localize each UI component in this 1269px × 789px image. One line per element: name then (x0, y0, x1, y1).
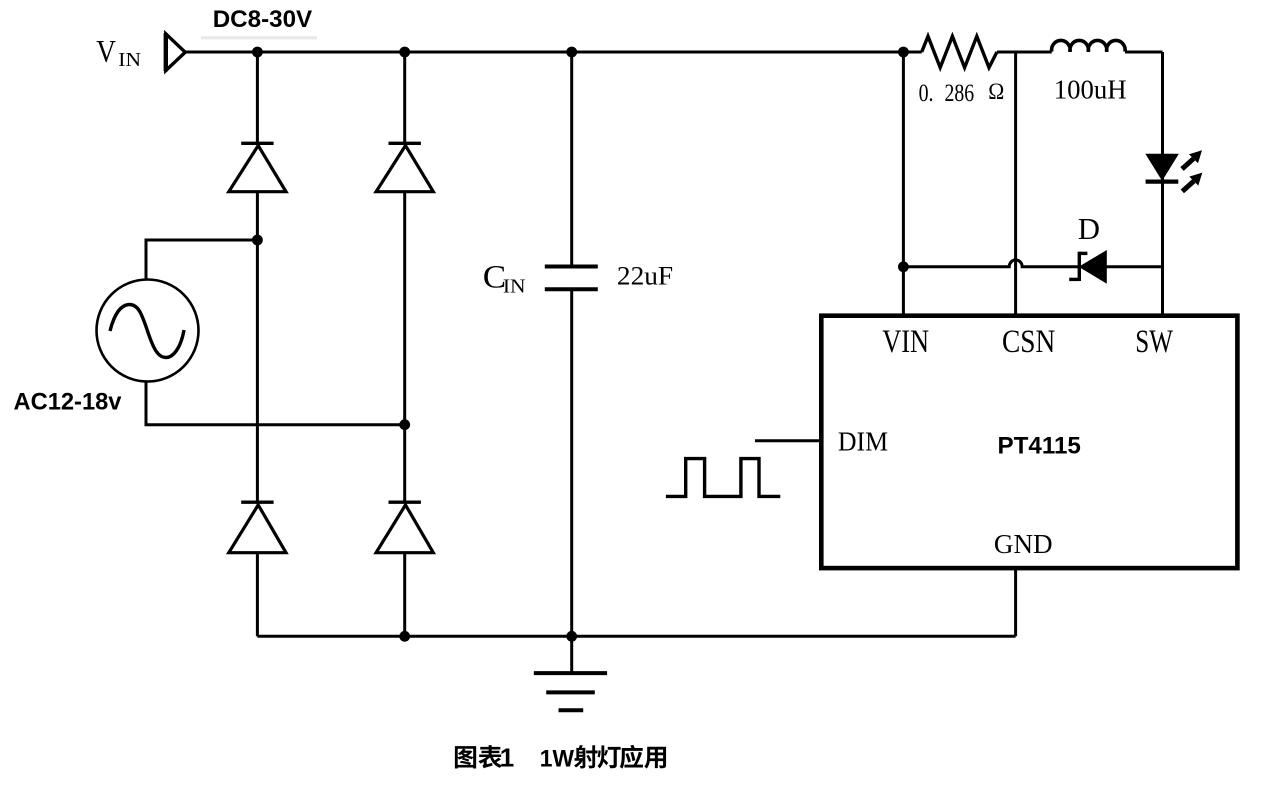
op-amp U1 PT4115 (IC body rectangle) (821, 316, 1237, 568)
wire (SW column: corner down through LED D5 to SW pin) (1161, 52, 1164, 316)
node dot (rail / bridge col 2) (399, 47, 410, 58)
wire (AC source bottom terminal to bridge node B) (146, 382, 405, 425)
port VIN input terminal (triangle) (166, 34, 185, 71)
LED D5 cathode bar (1146, 180, 1179, 184)
node dot (rail / VIN column) (898, 47, 909, 58)
AC source V1 (circle) (97, 280, 199, 382)
svg-text:D: D (1078, 212, 1100, 246)
node GND-rail (bottom ground rail) / wire (257, 635, 1015, 638)
svg-text:AC12-18v: AC12-18v (14, 389, 123, 415)
wire (bridge column 2 middle) (403, 192, 406, 503)
svg-text:DIM: DIM (838, 426, 888, 457)
decor faint smear (compression artifact under DC8-30V) (201, 36, 317, 39)
LED D5 light arrow 2 (1182, 181, 1194, 191)
wire (diode D anode to SW column) (1106, 265, 1162, 268)
node dot (rail / capacitor) (566, 47, 577, 58)
wire (capacitor CIN to bottom rail) (570, 290, 573, 637)
resistor R1 0.286ohm (zigzag) (922, 36, 997, 67)
svg-text:PT4115: PT4115 (998, 432, 1081, 459)
wire (CSN pin column) (1014, 52, 1017, 316)
diode D1 (bridge upper-left, cathode bar + triangle) (241, 142, 273, 145)
wire (bridge column 2 lower) (403, 553, 406, 637)
diode D cathode bar (Schottky) (1078, 252, 1081, 281)
node dot (ground rail / capacitor) (566, 631, 577, 642)
PWM dimming waveform (square wave) (666, 459, 780, 497)
wire (AC source top terminal to bridge node A) (146, 240, 257, 280)
node dot (rail / bridge col 1) (252, 47, 263, 58)
svg-text:CSN: CSN (1002, 323, 1055, 360)
capacitor CIN plate (bottom) (545, 287, 598, 291)
svg-text:SW: SW (1135, 324, 1173, 360)
svg-text:V: V (96, 35, 116, 69)
inductor L1 100uH (4 humps) (1052, 40, 1126, 51)
svg-text:Ω: Ω (988, 78, 1004, 104)
svg-text:IN: IN (503, 274, 526, 297)
svg-text:1W: 1W (540, 746, 575, 773)
node VIN-rail (top supply rail) / wire (186, 51, 922, 54)
wire (bridge column 1 middle) (256, 192, 259, 503)
svg-text:22uF: 22uF (617, 261, 673, 290)
capacitor CIN plate (top) (545, 265, 598, 269)
wire (bridge column 1 lower) (256, 553, 259, 637)
node A dot (AC top / bridge col 1) (252, 235, 263, 246)
svg-text:GND: GND (994, 529, 1053, 559)
wire (GND pin to ground rail) (1014, 566, 1017, 637)
wire (top rail to capacitor CIN) (570, 52, 573, 266)
svg-text:IN: IN (118, 47, 141, 70)
wire (VIN pin column) (902, 52, 905, 316)
svg-text:1: 1 (500, 742, 514, 772)
node B dot (AC bottom / bridge col 2) (399, 419, 410, 430)
caption 图表1 1W射灯应用 (455, 746, 476, 768)
diode D2 (bridge upper-right, cathode bar + triangle) (389, 142, 421, 145)
svg-text:100uH: 100uH (1054, 74, 1127, 104)
svg-text:VIN: VIN (882, 323, 929, 359)
AC source V1 sine wave (110, 305, 184, 358)
diode D (freewheel, filled triangle pointing left) (1080, 251, 1107, 283)
wire (freewheel: VIN node to diode D, hop over CSN column) (903, 260, 1079, 267)
wire (DIM pin stub) (755, 439, 819, 442)
wire (inductor L1 to SW corner) (1125, 51, 1163, 54)
ground (earth symbol) (570, 636, 573, 673)
diode D3 (bridge lower-left, cathode bar + triangle) (241, 501, 273, 504)
diode D4 (bridge lower-right, cathode bar + triangle) (389, 501, 421, 504)
node dot (VIN column / freewheel wire) (898, 261, 909, 272)
wire (bridge column 1 upper) (256, 52, 259, 143)
wire (bridge column 2 upper) (403, 52, 406, 143)
svg-text:DC8-30V: DC8-30V (213, 6, 312, 33)
node dot (ground rail / bridge col 2) (399, 631, 410, 642)
LED D5 (filled triangle) (1146, 154, 1178, 180)
wire (resistor R1 to inductor L1) (997, 51, 1052, 54)
svg-text:0.: 0. (919, 79, 934, 107)
LED D5 light arrow 1 (1182, 159, 1194, 169)
svg-text:286: 286 (945, 78, 975, 106)
